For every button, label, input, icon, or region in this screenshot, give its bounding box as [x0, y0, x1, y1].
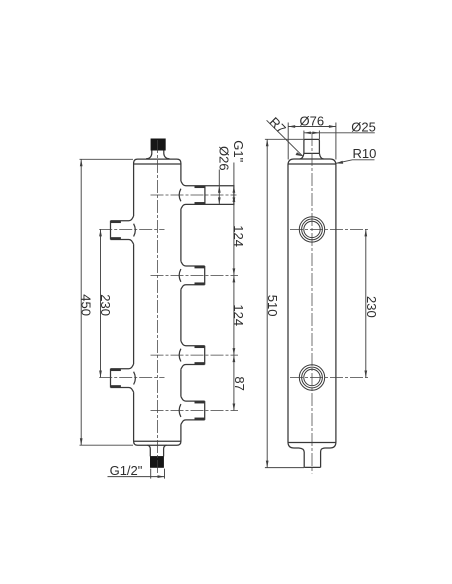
- arrows 230 right: [364, 229, 367, 236]
- leader R10: [336, 160, 375, 164]
- right view bottom seam: [288, 442, 336, 444]
- arrows diam26: [218, 186, 221, 193]
- arrows diam25: [304, 131, 311, 134]
- right view top neck: [300, 153, 304, 159]
- port R3: [179, 341, 205, 369]
- arrow R10: [336, 161, 343, 164]
- port L2: [111, 364, 136, 392]
- left view bottom cap seam: [134, 440, 181, 442]
- svg-text:124: 124: [231, 225, 246, 247]
- axis right view: [311, 133, 313, 474]
- crosshair lower circle: [290, 377, 369, 379]
- dim line diam 26: [218, 170, 220, 205]
- dim 450 extension top: [80, 158, 134, 160]
- texts right view: [265, 114, 379, 318]
- dim chain line (G1"/124/124/87): [233, 163, 235, 411]
- svg-text:R10: R10: [353, 146, 377, 161]
- dimensions right view: [265, 120, 375, 467]
- right view top stub: [304, 139, 320, 153]
- svg-text:Ø25: Ø25: [351, 119, 376, 134]
- svg-text:Ø26: Ø26: [217, 146, 232, 171]
- dim 230 line: [100, 229, 102, 377]
- dim 510 line: [266, 139, 268, 467]
- dim 230 right line: [365, 229, 367, 377]
- centerlines right view: [290, 133, 369, 474]
- centerline port R2: [151, 274, 239, 276]
- lower port circle inner: [304, 369, 320, 385]
- right view bottom cap: [288, 442, 304, 467]
- svg-text:87: 87: [232, 376, 247, 390]
- G1/2 dim line: [108, 476, 165, 478]
- right view body sides: [287, 165, 289, 442]
- axis left view: [157, 140, 159, 474]
- dim 450 line: [80, 159, 82, 445]
- svg-text:230: 230: [98, 294, 113, 316]
- dim diam76 line: [288, 126, 336, 128]
- lower port circle middle: [302, 367, 323, 388]
- bottom stub thread (black): [150, 456, 163, 467]
- top nipple neck: [146, 150, 169, 159]
- arrows 450: [80, 159, 83, 166]
- centerline port R1: [151, 194, 237, 196]
- top nipple thread (black): [151, 139, 166, 150]
- centerline port L2: [99, 377, 164, 379]
- svg-text:Ø76: Ø76: [300, 114, 325, 129]
- centerline port L1: [99, 228, 164, 230]
- upper port circle middle: [302, 219, 323, 240]
- port R4: [179, 397, 205, 425]
- svg-text:G1": G1": [231, 140, 246, 162]
- arrow R7: [296, 152, 303, 156]
- centerline port R3: [151, 354, 239, 356]
- right view top cap: [288, 159, 336, 165]
- arrows 510: [266, 139, 269, 146]
- port R1 (G1 inch, long): [179, 181, 234, 209]
- arrow G1/2: [158, 475, 165, 478]
- right view bottom stub face: [304, 466, 320, 468]
- svg-text:R7: R7: [266, 114, 288, 136]
- arrows chain 124/124/87: [233, 195, 236, 202]
- dim 450 extension bottom: [80, 444, 134, 446]
- upper port circle inner: [304, 221, 320, 237]
- leader R7: [267, 120, 303, 156]
- svg-text:124: 124: [231, 304, 246, 326]
- right view top seam: [288, 163, 336, 165]
- dim diam25 ext lines: [303, 131, 305, 140]
- lower port circle outer: [299, 365, 324, 390]
- left view body shell: [134, 159, 181, 445]
- port L1: [111, 216, 136, 244]
- centerline port R4: [151, 410, 239, 412]
- port R2: [179, 261, 205, 289]
- dim diam25 line with tail: [304, 132, 375, 134]
- svg-text:510: 510: [265, 295, 280, 317]
- svg-text:G1/2": G1/2": [110, 463, 143, 478]
- arrows G1 OD: [233, 186, 236, 193]
- bottom stub neck: [147, 445, 166, 456]
- crosshair upper circle: [290, 228, 369, 230]
- left view top cap seam: [134, 163, 181, 165]
- dim 510 ext bottom: [265, 467, 304, 469]
- svg-text:450: 450: [79, 294, 94, 316]
- upper port circle outer: [299, 217, 324, 242]
- G1/2 ext lines: [150, 469, 152, 479]
- dim diam76 ext lines: [287, 123, 289, 160]
- arrows 230: [99, 229, 102, 236]
- svg-text:230: 230: [364, 296, 379, 318]
- arrowheads right view: [266, 125, 367, 467]
- dim 510 ext top: [265, 138, 304, 140]
- arrows diam76: [288, 125, 295, 128]
